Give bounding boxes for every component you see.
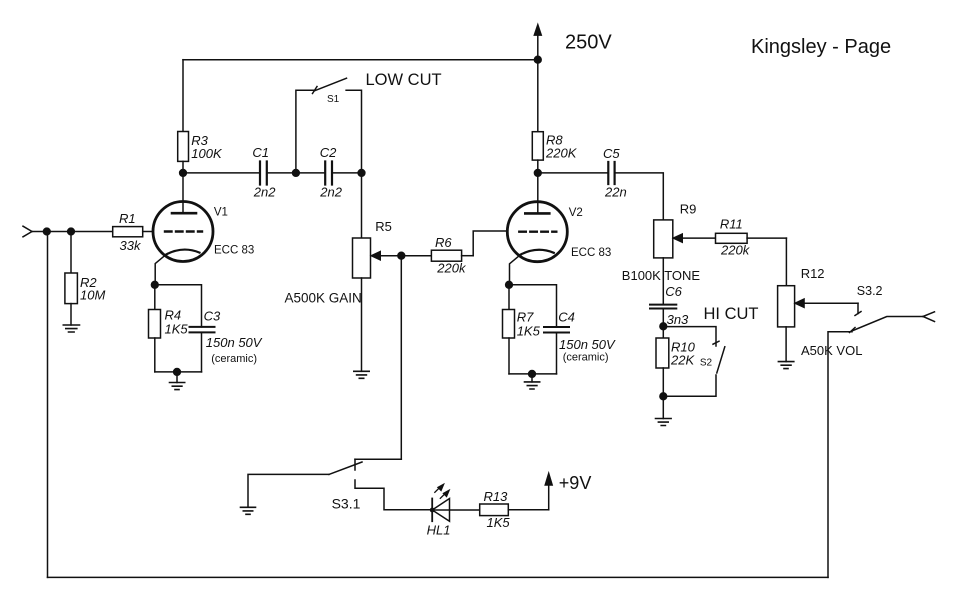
resistor R1 (113, 227, 154, 237)
svg-text:C4: C4 (558, 309, 575, 324)
wire V2 cathode bottom (509, 373, 557, 375)
ground V2 cathode (525, 374, 540, 389)
ground R5 (354, 371, 369, 378)
svg-text:R12: R12 (801, 266, 825, 281)
wire C1 to C2 (267, 172, 325, 174)
svg-text:S3.2: S3.2 (857, 284, 883, 298)
V1 anode (172, 173, 196, 213)
svg-text:2n2: 2n2 (319, 185, 342, 200)
svg-text:C5: C5 (603, 146, 620, 161)
svg-text:HI CUT: HI CUT (704, 305, 759, 323)
svg-text:R6: R6 (435, 235, 452, 250)
input jack (23, 226, 32, 237)
svg-text:S3.1: S3.1 (332, 495, 361, 511)
wire bottom rail (48, 576, 829, 578)
svg-text:S1: S1 (327, 94, 340, 105)
svg-text:HL1: HL1 (427, 522, 451, 537)
resistor R10 (656, 326, 669, 396)
potentiometer R12 (778, 286, 795, 362)
capacitor C6 (650, 305, 676, 309)
svg-text:10M: 10M (80, 288, 105, 303)
capacitor C1 (260, 162, 267, 185)
switch S3.1 (329, 459, 432, 510)
resistor R6 (401, 250, 473, 261)
node rail R8 (534, 56, 541, 63)
svg-text:R1: R1 (119, 211, 136, 226)
triode V1 envelope (153, 202, 213, 262)
node R2 junction (68, 228, 75, 235)
svg-text:+9V: +9V (559, 473, 592, 493)
svg-text:1K5: 1K5 (487, 515, 511, 530)
svg-text:C2: C2 (320, 145, 337, 160)
svg-text:C3: C3 (204, 308, 221, 323)
svg-text:(ceramic): (ceramic) (563, 352, 609, 364)
node R10 bottom (660, 393, 667, 400)
svg-text:LOW CUT: LOW CUT (366, 71, 442, 89)
node R5 wiper junction (398, 252, 405, 259)
svg-text:150n 50V: 150n 50V (559, 337, 616, 352)
V2 grid (519, 230, 556, 232)
svg-text:150n 50V: 150n 50V (206, 335, 263, 350)
wire node to C1 (183, 172, 260, 174)
capacitor C4 (544, 327, 569, 333)
svg-text:33k: 33k (120, 238, 142, 253)
svg-text:2n2: 2n2 (253, 185, 276, 200)
svg-text:C1: C1 (252, 145, 269, 160)
node V2 cathode ground (529, 371, 536, 378)
node V1 anode junction (180, 170, 187, 177)
svg-text:100K: 100K (191, 146, 223, 161)
ground S3.1 (241, 507, 256, 514)
wire gain node down to S3.1 (400, 256, 402, 460)
node V1 cathode ground (174, 369, 181, 376)
svg-text:A50K VOL: A50K VOL (801, 343, 862, 358)
resistor R11 (716, 233, 787, 243)
node V2 anode junction (534, 170, 541, 177)
svg-text:R13: R13 (484, 489, 509, 504)
svg-text:22n: 22n (604, 185, 627, 200)
svg-text:R11: R11 (720, 217, 743, 232)
resistor R13 (480, 504, 549, 516)
resistor R8 (532, 60, 543, 173)
HL1 light arrows (435, 484, 450, 498)
R5 wiper (371, 251, 402, 260)
potentiometer R5 (353, 173, 371, 371)
svg-text:R4: R4 (165, 307, 182, 322)
svg-text:B100K TONE: B100K TONE (622, 268, 701, 283)
power arrow 250V (534, 24, 542, 60)
node input-left (43, 228, 50, 235)
ground R12 (778, 362, 793, 369)
R12 wiper (795, 299, 858, 308)
wire input to R1 (32, 231, 113, 233)
capacitor C3 (190, 327, 215, 333)
switch S3.2 (828, 303, 923, 577)
node C6 R10 (660, 323, 667, 330)
wire V2 cathode top (509, 285, 557, 327)
V2 cathode (510, 250, 554, 285)
svg-text:220k: 220k (720, 242, 751, 257)
LED HL1 (430, 499, 480, 522)
svg-text:V1: V1 (214, 207, 228, 219)
triode V2 envelope (507, 202, 567, 262)
resistor R4 (149, 285, 161, 372)
resistor R2 (65, 232, 78, 326)
V2 anode (525, 173, 549, 214)
svg-text:22K: 22K (670, 353, 695, 368)
R9 wiper (673, 234, 716, 243)
wire R11 to R12 (785, 238, 787, 286)
wire C2 to R5 column (332, 172, 362, 174)
svg-text:S2: S2 (700, 357, 713, 368)
svg-text:1K5: 1K5 (165, 322, 189, 337)
switch S1 (296, 78, 362, 173)
wire top rail (183, 59, 538, 61)
svg-text:1K5: 1K5 (517, 324, 541, 339)
svg-text:(ceramic): (ceramic) (211, 353, 257, 365)
ground V1 cathode (170, 372, 185, 390)
wire C5 to R9 (615, 173, 664, 220)
svg-text:A500K GAIN: A500K GAIN (285, 290, 362, 305)
output jack (923, 312, 935, 322)
wire V1 cathode top (155, 285, 202, 327)
cathode network V1: node (151, 281, 158, 288)
switch S2 (663, 327, 725, 397)
svg-text:220k: 220k (436, 260, 467, 275)
wire R8 node to C5 (538, 172, 609, 174)
ground R2 (63, 325, 79, 332)
svg-text:R7: R7 (517, 309, 534, 324)
node C2 right (358, 170, 365, 177)
V1 grid (165, 230, 202, 232)
svg-text:V2: V2 (569, 207, 583, 219)
svg-text:Kingsley - Page: Kingsley - Page (751, 36, 891, 58)
resistor R3 (178, 60, 189, 173)
svg-text:220K: 220K (545, 145, 578, 160)
svg-text:ECC 83: ECC 83 (214, 245, 254, 257)
+9V supply arrow (545, 473, 553, 510)
cathode network V2: node (506, 281, 513, 288)
wire left vertical down (47, 232, 49, 578)
wire V1 cathode bottom (155, 371, 202, 373)
capacitor C2 (325, 162, 332, 185)
svg-text:R5: R5 (375, 219, 392, 234)
wire R6 to V2 grid (473, 231, 507, 256)
capacitor C5 (608, 162, 614, 184)
V1 cathode (155, 250, 199, 285)
svg-text:C6: C6 (665, 284, 682, 299)
ground R10 (656, 396, 672, 425)
svg-text:250V: 250V (565, 31, 612, 53)
svg-text:3n3: 3n3 (667, 312, 689, 327)
potentiometer R9 (654, 220, 673, 305)
svg-text:R9: R9 (680, 202, 697, 217)
node S1 left (293, 170, 300, 177)
resistor R7 (503, 285, 515, 374)
svg-text:ECC 83: ECC 83 (571, 247, 611, 259)
wire S3.1 to ground (248, 474, 329, 507)
